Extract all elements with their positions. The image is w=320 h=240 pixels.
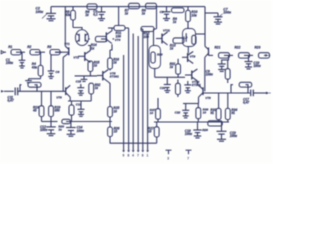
capacitor C10 (node to gnd, right) (245, 55, 261, 69)
resistor R15 (vertical) (88, 60, 100, 76)
svg-text:VT8: VT8 (205, 96, 211, 100)
svg-text:R22: R22 (235, 46, 241, 50)
resistor R20 (on bottom wire) (58, 119, 70, 131)
svg-text:1к: 1к (113, 60, 117, 64)
wire (bus feed, R12 right) (153, 29, 155, 46)
svg-text:6: 6 (142, 154, 144, 158)
svg-text:10: 10 (203, 111, 207, 115)
svg-text:10: 10 (114, 130, 118, 134)
svg-text:100н: 100н (77, 129, 84, 133)
wire (right channel collector feed) (204, 7, 206, 47)
transistor VT8 (right output) (199, 85, 212, 100)
svg-text:100н: 100н (223, 11, 231, 15)
svg-text:1к: 1к (91, 46, 95, 50)
svg-text:R30: R30 (157, 52, 163, 56)
wire (to VT1 base) (55, 51, 62, 53)
svg-text:91: 91 (231, 111, 235, 115)
svg-text:1к: 1к (85, 13, 89, 17)
resistor R8 (on rail) (142, 3, 157, 15)
svg-text:100н: 100н (185, 132, 192, 136)
bus wire pin 4 (132, 34, 134, 151)
wire (rail feed to R11) (118, 7, 120, 26)
resistor R34 (vertical) (225, 93, 237, 122)
svg-text:КТ361: КТ361 (110, 74, 119, 78)
svg-text:R23: R23 (255, 46, 261, 50)
svg-text:43к: 43к (31, 65, 38, 69)
svg-text:91: 91 (210, 111, 214, 115)
resistor R37 (vertical) (150, 98, 161, 122)
svg-text:10: 10 (148, 129, 152, 133)
svg-text:10к: 10к (191, 13, 197, 17)
svg-text:R1: R1 (8, 45, 12, 49)
svg-text:100н: 100н (206, 72, 213, 76)
resistor R10 (vertical, from rail) (186, 7, 198, 29)
svg-text:100: 100 (143, 35, 149, 39)
svg-text:R28: R28 (202, 128, 208, 132)
resistor R35 (vertical, right mid) (176, 80, 181, 98)
label C15 (76, 80, 82, 84)
ground (left tail) (81, 76, 88, 82)
pin terminal 6 (141, 150, 144, 157)
wire (left channel collector feed) (64, 7, 66, 47)
resistor R6 (on rail) (85, 4, 97, 17)
resistor R32 (vertical) (89, 83, 101, 101)
svg-text:43к: 43к (64, 13, 71, 17)
resistor R7 (on rail) (125, 3, 140, 15)
resistor R3 (47, 45, 60, 55)
capacitor C18 (to gnd) (185, 122, 202, 138)
capacitor C7 100n (rail decoupling, top-right) (205, 7, 231, 24)
svg-text:7: 7 (137, 154, 139, 158)
resistor R25 (vertical) (108, 106, 120, 121)
svg-text:0,47: 0,47 (243, 100, 249, 104)
transistor VT4 (106, 28, 120, 50)
bias loop (right channel lower) (149, 46, 161, 78)
transistor VT11 (156, 28, 170, 45)
pin terminal 7 (137, 150, 140, 157)
resistor R29 (feedback bridge, right) (231, 82, 252, 93)
svg-text:7: 7 (187, 156, 189, 160)
capacitor C15 (small, mid) (77, 84, 84, 95)
wire (VT12 emitter down) (196, 81, 198, 85)
wire (bottom right) (154, 121, 229, 123)
svg-text:9: 9 (123, 154, 125, 158)
resistor R17 (feedback bridge) (20, 82, 41, 91)
wire + output terminal (right top) (264, 54, 270, 57)
capacitor C5 (to gnd below rail) (160, 7, 171, 21)
resistor R21 (215, 46, 230, 59)
svg-text:10: 10 (113, 109, 117, 113)
resistor R16 (vertical) (108, 50, 120, 71)
svg-text:100н: 100н (6, 61, 13, 65)
resistor R11 (horizontal) (108, 26, 129, 39)
resistor R24 (vertical, right) (225, 60, 230, 83)
svg-text:1к: 1к (173, 20, 177, 24)
resistor R14 (horizontal, left channel) (88, 36, 107, 50)
capacitor C21 (right mid to gnd) (184, 81, 191, 93)
chassis terminal 7 (186, 150, 192, 160)
resistor R13 (horizontal, right channel) (170, 38, 184, 51)
svg-text:C5: C5 (160, 10, 164, 14)
capacitor C22 (to gnd) (175, 104, 190, 118)
svg-text:100н: 100н (40, 128, 47, 132)
svg-text:R2: R2 (27, 45, 31, 49)
transistor VT5 (97, 70, 119, 83)
svg-text:VT1: VT1 (64, 42, 70, 46)
svg-text:C15: C15 (76, 80, 82, 84)
chassis terminal 3 (166, 150, 172, 160)
svg-text:0,47: 0,47 (7, 99, 13, 103)
svg-text:1к: 1к (58, 127, 62, 131)
svg-text:1: 1 (147, 154, 149, 158)
capacitor C1 (input node to gnd) (19, 52, 26, 68)
dual transistor VT2/VT3 (left, in ellipse) (75, 30, 88, 46)
pin terminal 4 (132, 150, 135, 157)
resistor R30 (in loop) (151, 52, 163, 63)
wire (bias loop to output stage, right) (196, 34, 206, 91)
wire (left tail) (75, 75, 97, 77)
resistor R13b (in bias loop) (192, 35, 196, 44)
transistor VT2 (73, 51, 90, 63)
svg-text:1к: 1к (142, 12, 146, 16)
svg-text:1к: 1к (95, 86, 99, 90)
resistor R22 (235, 46, 250, 59)
transistor VT6 (left output) (56, 85, 70, 101)
wire (224, 54, 233, 56)
resistor R5 (vertical, from rail) (64, 7, 82, 30)
resistor R4 (vertical to gnd) (25, 52, 43, 82)
wire (rail feed to R12) (156, 7, 158, 29)
bus wire pin 6 (142, 29, 144, 150)
resistor R33 (vertical) (210, 93, 221, 122)
capacitor C19 (to gnd) (217, 122, 238, 141)
wire (bottom U link) (110, 137, 157, 143)
svg-text:1к: 1к (94, 63, 98, 67)
wire (VT2 collector up) (88, 46, 90, 51)
pin terminal 1 (146, 150, 149, 157)
svg-text:R3: R3 (47, 45, 51, 49)
svg-text:390: 390 (54, 109, 60, 113)
resistor R28 (on bottom right wire) (202, 121, 222, 132)
svg-text:VT4: VT4 (115, 38, 121, 42)
svg-text:C13: C13 (76, 102, 82, 106)
wire (16, 51, 25, 53)
svg-text:10: 10 (150, 111, 154, 115)
resistor R19 (vertical) (49, 91, 61, 116)
bus wire pin 1 (147, 34, 149, 151)
svg-text:C22: C22 (175, 111, 181, 115)
resistor R36 (vertical) (196, 104, 209, 123)
resistor R18 (vertical to gnd) (32, 91, 44, 116)
svg-text:R21: R21 (215, 46, 221, 50)
svg-text:C20: C20 (160, 86, 166, 90)
capacitor C11 (series, output) (7, 88, 17, 103)
wire (VT8 emitter region) (183, 97, 199, 103)
svg-text:8: 8 (128, 154, 130, 158)
svg-text:1к: 1к (170, 65, 174, 69)
bus wire pin 9 (123, 55, 125, 150)
wire top supply rail (51, 6, 205, 8)
capacitor C20 (right tail to gnd) (160, 77, 171, 92)
wire (35, 51, 45, 53)
capacitor C13 (to gnd) (76, 101, 85, 116)
svg-text:VT11: VT11 (163, 28, 170, 32)
bus wire pin 7 (137, 36, 139, 150)
capacitor C9 (node to gnd, right) (206, 55, 229, 76)
transistor VT12 (185, 69, 201, 87)
resistor R1 (8, 45, 21, 55)
capacitor C14 (bottom, to gnd) (66, 122, 84, 137)
svg-text:VT9: VT9 (190, 55, 196, 59)
svg-text:VT2: VT2 (73, 56, 79, 60)
transistor VT10 (right input) (205, 46, 213, 57)
capacitor C2 100n (rail decoupling, top-left) (36, 7, 57, 21)
wire (bottom left bus) (42, 117, 113, 122)
wire (output, left) (18, 90, 66, 92)
label C1 (6, 58, 13, 65)
capacitor C17 (series, output right) (243, 90, 253, 105)
vbe multiplier loop (right channel bias) (183, 26, 196, 53)
svg-text:1к: 1к (170, 47, 174, 51)
wire (right tail) (155, 76, 185, 78)
svg-text:43: 43 (32, 109, 37, 113)
pin terminal 9 (122, 150, 125, 157)
svg-text:VT6: VT6 (56, 96, 62, 100)
svg-text:100н: 100н (230, 134, 237, 138)
capacitor C3 (to gnd below rail) (93, 7, 105, 21)
svg-text:0,1: 0,1 (93, 12, 98, 16)
wire (output, right) (203, 92, 250, 94)
pin terminal 8 (127, 150, 130, 157)
svg-text:100н: 100н (253, 64, 260, 68)
wire (mid left) (68, 100, 91, 102)
output terminal (left) (1, 90, 14, 93)
resistor R26 (vertical, bottom) (108, 122, 120, 144)
resistor R2 (27, 45, 40, 55)
bus wire pin 8 (128, 28, 130, 150)
wire + output terminal (right) (253, 92, 270, 95)
svg-text:3: 3 (167, 156, 169, 160)
svg-text:C8: C8 (55, 70, 59, 74)
resistor R23 (255, 46, 270, 59)
capacitor C8 (VT1 base to gnd) (48, 54, 60, 78)
transistor VT9 (right channel driver) (182, 52, 196, 64)
transistor VT1 (left input) (55, 42, 70, 57)
resistor R9 (below rail) (172, 8, 185, 24)
resistor R27 (vertical, bottom right) (148, 122, 159, 137)
resistor R31 (vertical, right) (170, 59, 181, 78)
wire (VT1 to VT6) (62, 57, 64, 91)
svg-text:4: 4 (132, 154, 134, 158)
electrolytic C16 (vertical) (69, 101, 74, 122)
wire (244, 54, 253, 56)
svg-text:100н: 100н (36, 10, 44, 14)
svg-text:1к: 1к (125, 12, 129, 16)
resistor R12 (horizontal) (141, 27, 156, 39)
input terminal (left) (1, 51, 6, 54)
capacitor C12 (bottom, to gnd) (40, 122, 56, 136)
wire (VT5 emitter down) (108, 82, 110, 106)
